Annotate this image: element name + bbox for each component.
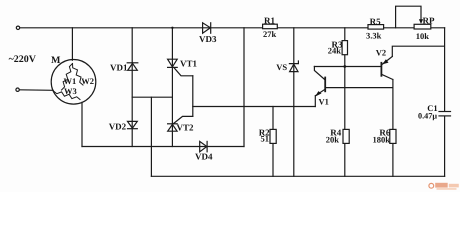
svg-text:180k: 180k	[373, 134, 391, 144]
svg-text:W3: W3	[64, 86, 77, 96]
wire drop from mid link to bottom rail	[150, 97, 152, 176]
svg-text:27k: 27k	[263, 29, 277, 39]
motor winding W1	[62, 64, 73, 91]
motor winding W3	[54, 91, 81, 100]
resistor R4	[343, 129, 349, 143]
svg-text:VT1: VT1	[180, 59, 198, 69]
terminal top-left	[16, 26, 19, 29]
svg-text:RP: RP	[423, 16, 435, 26]
capacitor C1	[439, 112, 451, 116]
junction VT branch top	[171, 27, 173, 29]
resistor R2	[270, 129, 276, 143]
motor M circle	[51, 60, 96, 105]
terminal bottom-left	[16, 88, 19, 91]
resistor R1	[263, 24, 278, 29]
svg-text:VS: VS	[276, 62, 287, 72]
resistor R5	[368, 25, 384, 30]
wire VT1 gate lead	[174, 68, 192, 76]
arrow V2 emitter	[382, 59, 388, 64]
svg-text:W1: W1	[64, 76, 77, 86]
watermark logo	[429, 183, 459, 190]
wire V2 collector / R6 branch	[392, 80, 394, 177]
diode VD4	[200, 141, 207, 151]
svg-text:10k: 10k	[416, 31, 430, 41]
svg-text:M: M	[51, 55, 61, 66]
svg-text:51: 51	[261, 134, 270, 144]
wire VD1/VD2 branch	[131, 28, 133, 147]
svg-text:R5: R5	[370, 16, 381, 26]
wire VT2 gate lead	[173, 116, 192, 123]
svg-text:0.47μ: 0.47μ	[418, 111, 437, 120]
wire R2 branch	[272, 107, 274, 177]
wire V2 emitter to C1 branch	[392, 46, 444, 56]
svg-text:VD4: VD4	[195, 151, 213, 161]
svg-text:R1: R1	[264, 16, 275, 26]
resistor R6	[390, 129, 396, 143]
diode VD1	[127, 63, 138, 71]
wire V1 base to V2 collector	[325, 87, 393, 89]
arrow RP wiper	[419, 19, 423, 24]
thyristor VT1	[168, 59, 178, 67]
potentiometer RP	[414, 24, 431, 29]
wire gate bus	[193, 106, 315, 108]
wire from bottom terminal to motor	[19, 89, 53, 92]
svg-text:20k: 20k	[326, 134, 340, 144]
wire gate tie vertical	[192, 76, 194, 117]
resistor R3	[342, 41, 347, 55]
zener VS	[289, 61, 298, 72]
junction node R3/V1/V2	[343, 65, 346, 68]
wire C1 branch	[444, 28, 446, 112]
wire right drop after VD3	[243, 28, 245, 147]
svg-text:V2: V2	[376, 48, 386, 58]
svg-text:VT2: VT2	[177, 123, 195, 133]
wire bottom rail	[151, 175, 444, 177]
svg-text:24k: 24k	[328, 46, 342, 56]
arrow V1 emitter	[315, 91, 321, 97]
wire lower-left rail	[82, 146, 244, 148]
wire mid link between branches	[132, 96, 172, 98]
transistor V2	[381, 57, 393, 80]
svg-text:W2: W2	[81, 76, 94, 86]
svg-text:VD1: VD1	[110, 63, 128, 73]
wire node line R3 bottom / V2 base	[314, 66, 381, 68]
wire R3/R4 branch	[344, 28, 346, 177]
thyristor VT2	[168, 124, 178, 131]
wire top rail	[20, 27, 445, 29]
wire motor bottom drop	[81, 102, 83, 146]
wire motor top drop	[71, 28, 73, 60]
svg-text:V1: V1	[319, 96, 329, 106]
svg-text:VD3: VD3	[199, 34, 217, 44]
svg-text:3.3k: 3.3k	[366, 31, 382, 41]
diode VD3	[203, 23, 211, 33]
transistor V1	[314, 67, 325, 107]
wire RP wiper bracket	[396, 6, 421, 28]
diode VD2	[128, 121, 138, 128]
svg-text:VD2: VD2	[109, 121, 127, 131]
svg-text:~220V: ~220V	[9, 54, 37, 65]
wire VT1/VT2 branch	[171, 28, 173, 147]
motor winding W2	[73, 64, 84, 86]
wire VS branch	[293, 28, 295, 177]
